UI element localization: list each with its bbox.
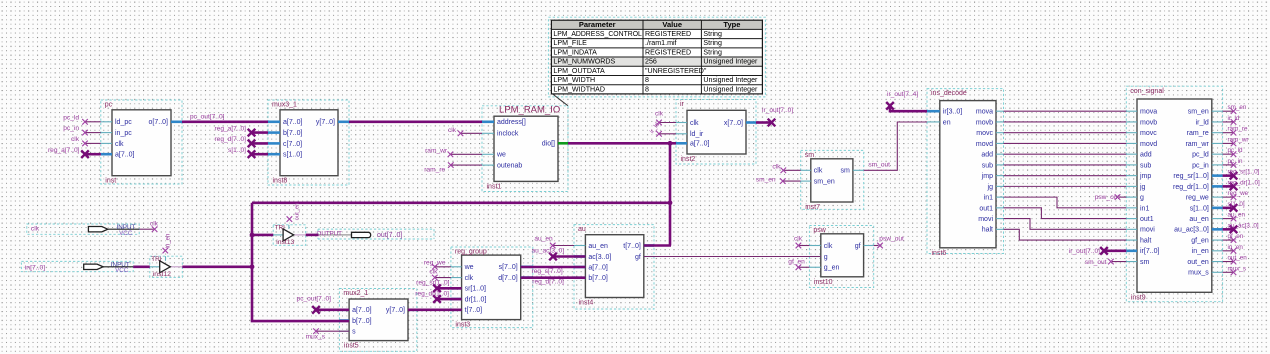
net stub output pc_ld	[1223, 147, 1243, 157]
net stub sm_en into sm	[756, 176, 801, 184]
net stub output au_ac[3..0]	[1223, 222, 1259, 233]
arithmetic unit au (inst4)	[574, 225, 654, 309]
wire mux3_1.y to ram address[]	[349, 121, 482, 124]
svg-text:in1: in1	[1140, 205, 1149, 212]
net stub output ir_ld	[1223, 115, 1240, 125]
svg-text:reg_dr[1..0]: reg_dr[1..0]	[1228, 179, 1260, 186]
net stub au_en into au	[534, 236, 574, 249]
net stub reg_a[7..0] into pc	[48, 147, 101, 158]
RAM block LPM_RAM_IO (inst1)	[482, 104, 568, 191]
wire au.gf to psw.g	[644, 256, 821, 258]
svg-text:clk: clk	[71, 136, 80, 143]
svg-text:movd: movd	[976, 141, 993, 148]
svg-text:s[7..0]: s[7..0]	[499, 264, 518, 271]
svg-text:./ram1.mif: ./ram1.mif	[645, 39, 677, 47]
svg-text:a[7..0]: a[7..0]	[690, 141, 710, 148]
net stub reg_we	[424, 259, 451, 269]
svg-text:clk: clk	[150, 220, 159, 227]
svg-text:reg_we: reg_we	[1228, 190, 1249, 197]
svg-text:8: 8	[645, 85, 649, 93]
svg-text:clk: clk	[465, 275, 474, 282]
wire jmp to con_signal	[1004, 175, 1127, 177]
svg-text:psw_out: psw_out	[1095, 194, 1120, 201]
net stub output mux_s	[1223, 265, 1246, 275]
svg-text:Unsigned Integer: Unsigned Integer	[703, 76, 758, 84]
svg-text:ir[3..0]: ir[3..0]	[943, 109, 963, 116]
net stub reg_a[7..0] into mux3_1	[214, 125, 268, 136]
svg-text:y[7..0]: y[7..0]	[386, 307, 405, 314]
wire mux2_1.y to reg_group.t	[408, 308, 462, 311]
wire sub to con_signal	[1004, 164, 1127, 166]
net stub mux_s into mux2_1	[306, 328, 350, 340]
svg-text:inst1: inst1	[487, 183, 502, 190]
net stub output out_en	[1223, 255, 1248, 265]
svg-text:inst7: inst7	[805, 204, 820, 211]
svg-text:pc_ld: pc_ld	[1228, 147, 1244, 154]
svg-text:8: 8	[645, 76, 649, 84]
svg-text:mux_s: mux_s	[1228, 265, 1247, 272]
svg-text:ram_wr: ram_wr	[1228, 136, 1249, 143]
svg-text:OUTPUT: OUTPUT	[317, 230, 343, 237]
wire reg_d bus	[521, 278, 586, 286]
svg-text:ram_wr: ram_wr	[425, 148, 448, 155]
svg-text:c[7..0]: c[7..0]	[283, 141, 302, 148]
svg-text:VCC: VCC	[115, 267, 129, 274]
svg-text:sm: sm	[841, 168, 851, 175]
wire ir.x output with dangling X	[756, 107, 793, 126]
svg-text:out1: out1	[1140, 216, 1154, 223]
svg-text:reg_sr[1..0]: reg_sr[1..0]	[1173, 173, 1208, 180]
svg-text:clk: clk	[655, 110, 664, 117]
svg-text:in_en: in_en	[1228, 244, 1244, 251]
net stub clk into sm	[772, 164, 800, 174]
svg-text:LPM_RAM_IO: LPM_RAM_IO	[499, 104, 560, 115]
svg-text:con_signal: con_signal	[1130, 88, 1164, 95]
instruction register ir (inst2)	[676, 100, 756, 165]
net stub clk into inclock	[448, 127, 482, 136]
svg-text:pc_out[7..0]: pc_out[7..0]	[190, 114, 225, 121]
svg-text:t[7..0]: t[7..0]	[623, 243, 641, 250]
svg-text:pc: pc	[105, 102, 113, 109]
junction data bus at ir	[668, 141, 673, 146]
svg-text:sm: sm	[1140, 259, 1150, 266]
junction at tri13 tap	[250, 233, 255, 238]
svg-text:in[7..0]: in[7..0]	[25, 264, 46, 271]
svg-text:jg: jg	[987, 184, 994, 191]
svg-text:add: add	[1140, 152, 1152, 159]
svg-text:LPM_INDATA: LPM_INDATA	[553, 48, 597, 56]
svg-text:mux_s: mux_s	[1188, 270, 1209, 277]
svg-text:movd: movd	[1140, 141, 1157, 148]
junction data bus mid	[668, 200, 673, 205]
svg-text:sm_en: sm_en	[814, 179, 835, 186]
svg-text:"UNREGISTERED": "UNREGISTERED"	[645, 67, 707, 75]
svg-text:a[7..0]: a[7..0]	[115, 152, 135, 159]
svg-text:ld_pc: ld_pc	[115, 119, 132, 126]
tri-state buffer inst13	[273, 224, 306, 246]
register block pc (inst)	[101, 100, 182, 185]
svg-text:inst2: inst2	[681, 156, 696, 163]
wire mova to con_signal	[1004, 110, 1127, 112]
svg-text:dio[]: dio[]	[542, 141, 555, 148]
svg-text:ram_re: ram_re	[424, 167, 445, 174]
svg-text:halt: halt	[1140, 237, 1151, 244]
svg-text:mova: mova	[1140, 109, 1157, 116]
net stub clk into pc	[71, 136, 101, 146]
net stub au_ac[3..0] into au	[532, 247, 586, 260]
svg-text:ir[7..0]: ir[7..0]	[1140, 248, 1160, 255]
svg-text:pc_in: pc_in	[1192, 162, 1209, 169]
net stub pc_ld into pc	[63, 114, 101, 124]
wire data bus vertical	[669, 143, 672, 245]
svg-text:LPM_OUTDATA: LPM_OUTDATA	[553, 67, 605, 75]
svg-text:we: we	[464, 264, 474, 271]
svg-text:sm_en: sm_en	[1188, 109, 1209, 116]
svg-text:ir_ld: ir_ld	[1196, 119, 1209, 126]
svg-text:au_ac[3..0]: au_ac[3..0]	[532, 247, 565, 254]
svg-text:sub: sub	[982, 162, 993, 169]
net stub in_en on tri12	[163, 234, 172, 254]
svg-text:ram_re: ram_re	[1187, 130, 1209, 137]
svg-text:s[1..0]: s[1..0]	[283, 152, 302, 159]
svg-text:Unsigned Integer: Unsigned Integer	[703, 58, 758, 66]
svg-text:jg: jg	[1139, 184, 1146, 191]
input pin clk	[27, 224, 139, 237]
svg-text:clk: clk	[690, 120, 699, 127]
svg-text:in_en: in_en	[165, 234, 171, 249]
svg-text:b[7..0]: b[7..0]	[588, 275, 608, 282]
decoder ins_decode (inst6)	[927, 89, 1004, 257]
svg-text:ac[3..0]: ac[3..0]	[588, 254, 611, 261]
svg-text:inst5: inst5	[344, 343, 359, 350]
net stub sm_out into con_signal	[1085, 259, 1126, 266]
svg-text:au_en: au_en	[1228, 212, 1246, 219]
svg-text:ram_wr: ram_wr	[1185, 141, 1209, 148]
svg-text:s[1..0]: s[1..0]	[1190, 205, 1209, 212]
svg-text:g: g	[824, 254, 828, 261]
svg-text:LPM_WIDTHAD: LPM_WIDTHAD	[553, 85, 605, 93]
net stub ir_out[7..0] into con_signal	[1069, 247, 1126, 255]
wire tri13 output to out pin	[306, 234, 319, 237]
svg-text:g: g	[1140, 195, 1144, 202]
svg-text:a[7..0]: a[7..0]	[352, 307, 372, 314]
svg-text:reg_dr[1..0]: reg_dr[1..0]	[1173, 184, 1209, 191]
svg-text:clk: clk	[794, 236, 803, 243]
svg-text:out1: out1	[979, 205, 993, 212]
svg-text:String: String	[703, 39, 722, 47]
wire input pin in to tri12	[133, 265, 150, 268]
svg-text:out[7..0]: out[7..0]	[377, 232, 402, 239]
parameter table for LPM_RAM_IO	[548, 17, 765, 97]
svg-text:outenab: outenab	[497, 163, 522, 170]
svg-text:ir: ir	[680, 101, 685, 108]
svg-text:String: String	[703, 30, 722, 38]
svg-text:gf_en: gf_en	[1228, 233, 1244, 240]
svg-text:sm_out: sm_out	[1085, 259, 1107, 266]
svg-text:inst8: inst8	[273, 178, 288, 185]
svg-text:out_en: out_en	[1187, 259, 1209, 266]
svg-text:au_en: au_en	[534, 236, 553, 243]
svg-text:movi: movi	[978, 216, 993, 223]
net stub ir_ld into ir.ld_ir	[649, 121, 676, 137]
wire jg to con_signal	[1004, 185, 1127, 187]
svg-text:g_en: g_en	[824, 265, 840, 272]
svg-text:256: 256	[645, 58, 657, 66]
svg-text:LPM_NUMWORDS: LPM_NUMWORDS	[553, 58, 615, 66]
wire add to con_signal	[1004, 153, 1127, 155]
register file reg_group (inst3)	[451, 247, 533, 329]
svg-text:ins_decode: ins_decode	[931, 90, 967, 97]
net stub output s[1..0]	[1223, 201, 1245, 212]
svg-text:clk: clk	[448, 127, 457, 134]
mux mux2_1 (inst5)	[339, 289, 416, 352]
svg-text:reg_a[7..0]: reg_a[7..0]	[214, 125, 246, 132]
svg-text:REGISTERED: REGISTERED	[645, 48, 691, 56]
net stub reg_dr[1..0]	[415, 290, 461, 303]
junction at tri12 tap	[250, 264, 255, 269]
svg-text:clk: clk	[115, 141, 124, 148]
net stub output reg_we	[1223, 190, 1249, 200]
svg-text:jmp: jmp	[1139, 173, 1151, 180]
net stub output au_en	[1223, 212, 1246, 222]
wire pc_out bus pc.q to mux3_1.a	[182, 121, 268, 124]
svg-text:Unsigned Integer: Unsigned Integer	[703, 85, 758, 93]
svg-text:inst10: inst10	[814, 279, 833, 286]
svg-text:reg_dr[1..0]: reg_dr[1..0]	[415, 290, 449, 297]
svg-text:VCC: VCC	[119, 230, 133, 237]
svg-text:reg_s[7..0]: reg_s[7..0]	[532, 268, 563, 275]
svg-text:pc_out[7..0]: pc_out[7..0]	[297, 295, 332, 302]
controller con_signal (inst9)	[1126, 86, 1222, 302]
svg-text:reg_we: reg_we	[1186, 195, 1209, 202]
svg-text:mova: mova	[976, 109, 993, 116]
net stub pc_in into pc	[63, 125, 101, 135]
wire tri13 input	[252, 234, 273, 237]
svg-text:ir_out[7..0]: ir_out[7..0]	[762, 107, 793, 114]
wire au.t to data bus	[644, 244, 671, 247]
svg-text:au_en: au_en	[1189, 216, 1209, 223]
svg-text:add: add	[981, 152, 993, 159]
net stub clk into psw	[794, 236, 809, 249]
svg-text:pc_ld: pc_ld	[63, 114, 79, 121]
svg-text:sm: sm	[805, 152, 815, 159]
net stub out_en on tri13	[287, 203, 301, 222]
net stub output gf_en	[1223, 233, 1244, 243]
net stub psw_out into con_signal.g	[1095, 194, 1127, 201]
net stub clk into reg_group	[429, 268, 451, 280]
svg-text:b[7..0]: b[7..0]	[352, 318, 372, 325]
net stub pc_out[7..0] into mux2_1	[297, 295, 350, 313]
callout leader from table to U-RAM	[553, 94, 568, 106]
wire in1 to con_signal	[1004, 197, 1127, 208]
svg-text:mux3_1: mux3_1	[272, 102, 297, 109]
svg-text:mux_s: mux_s	[306, 333, 326, 340]
svg-text:Type: Type	[723, 20, 740, 29]
svg-text:reg_group: reg_group	[455, 249, 487, 256]
wire out1 to con_signal	[1004, 208, 1127, 219]
net stub ram_wr into we	[425, 148, 482, 158]
net stub gf_en into psw	[788, 259, 809, 270]
svg-text:inst13: inst13	[276, 239, 294, 246]
svg-text:inst9: inst9	[1131, 294, 1146, 301]
svg-text:psw_out: psw_out	[879, 236, 904, 243]
svg-text:sm_out: sm_out	[868, 161, 890, 168]
svg-text:dr[1..0]: dr[1..0]	[465, 296, 487, 303]
net stub output reg_dr[1..0]	[1223, 179, 1260, 190]
wire sm out to ins_decode.en	[864, 122, 927, 170]
svg-text:a[7..0]: a[7..0]	[588, 264, 608, 271]
svg-text:reg_sr[1..0]: reg_sr[1..0]	[1228, 169, 1260, 176]
svg-text:ld_ir: ld_ir	[690, 131, 704, 138]
svg-text:inst4: inst4	[579, 300, 594, 307]
net stub output ram_re	[1223, 126, 1248, 136]
svg-text:sm_en: sm_en	[1228, 104, 1247, 111]
tri-state buffer inst12	[150, 256, 183, 278]
wire reg_s bus	[521, 267, 586, 275]
svg-text:jmp: jmp	[981, 173, 993, 180]
svg-text:gf: gf	[635, 254, 641, 261]
svg-text:sr[1..0]: sr[1..0]	[465, 286, 486, 293]
svg-text:inst12: inst12	[153, 271, 171, 278]
svg-text:reg_d[7..0]: reg_d[7..0]	[532, 279, 564, 286]
svg-text:reg_d[7..0]: reg_d[7..0]	[214, 136, 246, 143]
wire psw.gf output psw_out	[874, 236, 904, 249]
svg-text:clk: clk	[824, 243, 833, 250]
input pin in[7..0]	[21, 261, 133, 274]
svg-text:LPM_FILE: LPM_FILE	[553, 39, 587, 47]
wire halt to con_signal	[1004, 229, 1127, 240]
svg-text:Parameter: Parameter	[579, 20, 616, 29]
svg-text:gf_en: gf_en	[1191, 237, 1209, 244]
wire movc to con_signal	[1004, 132, 1127, 134]
svg-text:inst: inst	[105, 178, 116, 185]
mux mux3_1 (inst8)	[268, 100, 349, 185]
svg-text:clk: clk	[429, 268, 438, 275]
svg-text:REGISTERED: REGISTERED	[645, 30, 691, 38]
svg-text:movb: movb	[1140, 119, 1157, 126]
svg-text:y[7..0]: y[7..0]	[316, 119, 335, 126]
wire movd to con_signal	[1004, 142, 1127, 144]
svg-text:ir_out[7..0]: ir_out[7..0]	[1069, 248, 1100, 255]
state machine sm (inst7)	[801, 150, 864, 211]
svg-text:movb: movb	[976, 119, 993, 126]
svg-text:String: String	[703, 48, 722, 56]
svg-text:gf_en: gf_en	[788, 259, 805, 266]
net stub clk from input pin	[139, 220, 158, 232]
svg-text:out_en: out_en	[1228, 255, 1248, 262]
wire data bus ram dio to ir.a	[568, 142, 676, 145]
svg-text:clk: clk	[814, 168, 823, 175]
svg-text:pc_in: pc_in	[1228, 158, 1244, 165]
svg-text:o[7..0]: o[7..0]	[149, 119, 169, 126]
svg-text:gf: gf	[855, 243, 861, 250]
svg-text:ir_out[7..4]: ir_out[7..4]	[887, 91, 918, 98]
wire movi to con_signal	[1004, 219, 1127, 230]
svg-text:we: we	[496, 152, 506, 159]
svg-text:Value: Value	[662, 20, 682, 29]
svg-text:reg_we: reg_we	[424, 259, 446, 266]
svg-text:reg_a[7..0]: reg_a[7..0]	[48, 147, 80, 154]
svg-text:out_en: out_en	[295, 203, 301, 221]
svg-text:LPM_WIDTH: LPM_WIDTH	[553, 76, 595, 84]
svg-text:au_en: au_en	[588, 243, 608, 250]
svg-text:mux2_1: mux2_1	[343, 290, 368, 297]
svg-text:in_en: in_en	[1192, 248, 1209, 255]
svg-text:movc: movc	[976, 130, 993, 137]
output pin out[7..0]	[317, 229, 435, 239]
svg-text:s: s	[352, 329, 356, 336]
svg-text:au_ac[3..0]: au_ac[3..0]	[1228, 222, 1259, 229]
svg-text:in_pc: in_pc	[115, 130, 132, 137]
net stub output pc_in	[1223, 158, 1243, 168]
svg-text:address[]: address[]	[497, 119, 526, 126]
svg-text:pc_in: pc_in	[63, 125, 79, 132]
svg-text:ram_re: ram_re	[1228, 126, 1248, 133]
wire data bus left vertical	[252, 203, 349, 321]
svg-text:in1: in1	[984, 195, 993, 202]
svg-text:movc: movc	[1140, 130, 1157, 137]
svg-text:en: en	[943, 119, 951, 126]
net stub clk into ir.clk	[655, 110, 676, 125]
svg-text:inclock: inclock	[497, 131, 519, 138]
net stub ir_out[7..4] into ins_decode	[886, 91, 927, 111]
svg-text:LPM_ADDRESS_CONTROL: LPM_ADDRESS_CONTROL	[553, 30, 642, 38]
svg-text:d[7..0]: d[7..0]	[498, 275, 518, 282]
svg-text:ir_ld: ir_ld	[1228, 115, 1240, 122]
svg-text:inst6: inst6	[932, 250, 947, 257]
svg-text:pc_ld: pc_ld	[1192, 152, 1209, 159]
svg-text:s[1..0]: s[1..0]	[1228, 201, 1245, 208]
flag register psw (inst10)	[809, 226, 873, 288]
net stub output ram_wr	[1223, 136, 1249, 146]
svg-text:reg_sr[1..0]: reg_sr[1..0]	[416, 280, 450, 287]
net stub output in_en	[1223, 244, 1244, 254]
wire data bus horizontal	[252, 202, 670, 205]
svg-text:a[7..0]: a[7..0]	[283, 119, 303, 126]
svg-text:halt: halt	[982, 227, 993, 234]
svg-text:clk: clk	[772, 164, 781, 171]
net stub output reg_sr[1..0]	[1223, 169, 1260, 180]
svg-text:sm_en: sm_en	[756, 176, 776, 183]
net stub ram_re into outenab	[424, 162, 482, 173]
svg-text:b[7..0]: b[7..0]	[283, 130, 303, 137]
svg-text:au_ac[3..0]: au_ac[3..0]	[1174, 227, 1209, 234]
net stub reg_d[7..0] into mux3_1	[214, 136, 268, 147]
wire movb to con_signal	[1004, 121, 1127, 123]
svg-text:movi: movi	[1140, 227, 1155, 234]
svg-text:inst3: inst3	[455, 322, 470, 329]
svg-text:sub: sub	[1140, 162, 1151, 169]
svg-text:s[1..0]: s[1..0]	[228, 147, 246, 154]
net stub s[1..0] into mux3_1	[228, 147, 268, 158]
svg-text:au: au	[578, 226, 586, 233]
svg-text:clk: clk	[31, 226, 40, 233]
svg-text:x[7..0]: x[7..0]	[724, 120, 743, 127]
wire tri12 output to bus	[182, 265, 252, 268]
net stub output sm_en	[1223, 104, 1247, 114]
svg-text:t[7..0]: t[7..0]	[465, 307, 483, 314]
svg-text:psw: psw	[813, 227, 826, 234]
net stub reg_sr[1..0]	[416, 280, 461, 293]
